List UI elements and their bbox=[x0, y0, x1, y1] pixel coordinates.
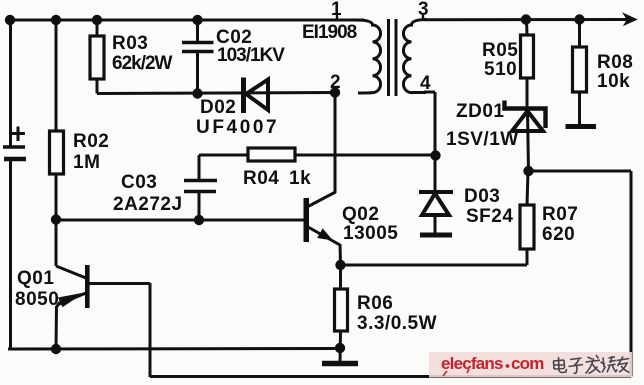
node C02 bottom bbox=[192, 88, 202, 98]
svg-text:R03: R03 bbox=[112, 33, 148, 54]
wire pin2 vertical to Q02 collector bbox=[334, 93, 337, 194]
label Q02 value bbox=[342, 204, 398, 244]
label R02 value bbox=[73, 131, 109, 173]
label R04 value bbox=[243, 168, 311, 189]
svg-text:R02: R02 bbox=[73, 131, 109, 152]
wire secondary output rail bbox=[424, 18, 628, 21]
wire right edge vertical bbox=[630, 171, 633, 377]
transformer core bbox=[389, 19, 397, 96]
wire R05 top lead bbox=[525, 20, 529, 36]
watermark elecfans bbox=[429, 352, 632, 378]
label ZD01 value bbox=[446, 101, 519, 150]
svg-text:Q02: Q02 bbox=[342, 204, 379, 225]
svg-text:R06: R06 bbox=[357, 293, 393, 314]
wire bottom rail y349 bbox=[8, 347, 340, 351]
svg-text:1M: 1M bbox=[73, 152, 100, 173]
node Q02 emitter bbox=[335, 260, 345, 270]
svg-text:1k: 1k bbox=[289, 168, 311, 189]
svg-text:R04: R04 bbox=[243, 168, 279, 189]
label D02 value bbox=[196, 97, 279, 138]
wire R03 top lead bbox=[96, 20, 99, 36]
wire horizontal y93 R03 to pin2 bbox=[97, 93, 335, 94]
node R08 top bbox=[574, 14, 584, 24]
svg-text:2A272J: 2A272J bbox=[113, 194, 183, 215]
transistor Q01 bbox=[57, 265, 90, 308]
wire R08 bottom lead bbox=[578, 92, 581, 126]
resistor R04 bbox=[248, 148, 295, 161]
svg-text:620: 620 bbox=[542, 224, 575, 245]
ground under R06 bbox=[322, 361, 358, 367]
diode D02 bbox=[244, 78, 269, 114]
label R05 value bbox=[482, 40, 518, 80]
node Q01 emitter bottom bbox=[51, 344, 61, 354]
svg-text:UF4007: UF4007 bbox=[196, 117, 279, 138]
node top-left corner bbox=[5, 15, 15, 25]
svg-text:1SV/1W: 1SV/1W bbox=[446, 129, 519, 150]
svg-text:8050: 8050 bbox=[15, 289, 59, 310]
label R06 value bbox=[357, 293, 437, 334]
wire Q02 emitter lead bbox=[339, 244, 343, 265]
wire R06 bottom lead bbox=[339, 331, 343, 363]
label Q01 value bbox=[15, 268, 59, 310]
svg-text:C03: C03 bbox=[121, 172, 157, 193]
wire R04 right to D03 node bbox=[295, 154, 436, 157]
wire horizontal y220 base line bbox=[56, 219, 305, 222]
label C02 value bbox=[216, 27, 285, 66]
transformer secondary winding bbox=[403, 20, 427, 93]
wire R02 top lead bbox=[55, 20, 58, 131]
label C03 value bbox=[113, 172, 183, 215]
wire R07 top lead bbox=[527, 171, 528, 205]
resistor R02 bbox=[50, 131, 64, 174]
svg-text:EI1908: EI1908 bbox=[302, 22, 357, 43]
svg-text:R05: R05 bbox=[482, 40, 518, 61]
svg-text:10k: 10k bbox=[597, 71, 630, 92]
wire R02 node down to Q01 collector bbox=[56, 220, 86, 278]
wire pin4 to D03 bbox=[424, 92, 435, 156]
label R03 value bbox=[112, 33, 173, 74]
ground under R08 bbox=[566, 124, 597, 129]
diode D03 bbox=[419, 155, 453, 234]
label R08 value bbox=[597, 52, 633, 92]
wire R02 bottom lead bbox=[55, 174, 58, 220]
svg-text:SF24: SF24 bbox=[466, 206, 513, 227]
node R05 top bbox=[521, 14, 531, 24]
wire R04 left lead with C03 corner bbox=[199, 155, 248, 180]
node R02 top bbox=[51, 15, 61, 25]
svg-text:ZD01: ZD01 bbox=[456, 101, 504, 122]
label pin 3 bbox=[418, 0, 429, 20]
wire R06 top lead bbox=[339, 265, 342, 289]
wire bottom rail2 y376 bbox=[150, 375, 631, 378]
resistor R08 bbox=[573, 47, 587, 92]
transformer primary winding bbox=[356, 20, 381, 93]
zener diode ZD01 bbox=[505, 101, 546, 172]
svg-text:103/1KV: 103/1KV bbox=[217, 45, 285, 66]
node R02-C03 junction bbox=[51, 214, 61, 224]
node D03 top bbox=[430, 150, 440, 160]
resistor R07 bbox=[520, 205, 534, 249]
svg-text:R08: R08 bbox=[597, 52, 633, 73]
svg-text:3.3/0.5W: 3.3/0.5W bbox=[357, 313, 437, 334]
wire Q01 emitter lead down bbox=[55, 306, 59, 349]
wire emitter horizontal y265 bbox=[341, 264, 528, 267]
wire R03 bottom lead bbox=[96, 79, 99, 94]
svg-text:com: com bbox=[511, 354, 544, 373]
wire R05 to ZD01 bbox=[526, 78, 529, 108]
watermark chinese characters bbox=[553, 355, 630, 374]
transistor Q02 bbox=[304, 192, 341, 245]
wire C02 bottom lead bbox=[196, 52, 199, 94]
capacitor C02 bbox=[182, 43, 214, 52]
label pin 1 bbox=[331, 0, 342, 20]
resistor R03 bbox=[90, 36, 104, 79]
wire C02 top lead bbox=[196, 20, 199, 42]
svg-text:D02: D02 bbox=[200, 97, 236, 118]
capacitor C01 polarized bbox=[3, 127, 26, 160]
ground under D03 bbox=[420, 233, 452, 238]
wire R08 top lead bbox=[578, 20, 581, 48]
label D03 value bbox=[464, 186, 513, 227]
label R07 value bbox=[542, 204, 578, 245]
svg-text:510: 510 bbox=[484, 59, 517, 80]
svg-text:R07: R07 bbox=[542, 204, 578, 225]
svg-text:D03: D03 bbox=[464, 186, 500, 207]
node ZD01-R07 junction bbox=[523, 166, 533, 176]
wire junction to right edge bbox=[529, 170, 632, 173]
output arrow bbox=[622, 12, 638, 26]
wire C03 bottom lead bbox=[198, 192, 201, 221]
svg-text:62k/2W: 62k/2W bbox=[112, 53, 173, 74]
svg-text:13005: 13005 bbox=[343, 223, 398, 244]
node C02 top bbox=[192, 15, 202, 25]
wire left vertical lower bbox=[9, 159, 12, 350]
node R06 bottom bbox=[335, 343, 345, 353]
node pin 2 bbox=[330, 87, 340, 97]
wire R07 bottom lead bbox=[526, 249, 529, 265]
wire Q01 base right then down bbox=[89, 283, 150, 377]
wire left vertical upper bbox=[9, 20, 12, 146]
resistor R06 bbox=[335, 289, 348, 331]
resistor R05 bbox=[521, 35, 534, 78]
node C03 bottom bbox=[194, 215, 204, 225]
wire top rail bbox=[8, 19, 364, 22]
svg-text:elecfans: elecfans bbox=[441, 354, 503, 373]
capacitor C03 bbox=[184, 181, 217, 192]
svg-text:Q01: Q01 bbox=[17, 268, 54, 289]
node R03 top bbox=[92, 15, 102, 25]
